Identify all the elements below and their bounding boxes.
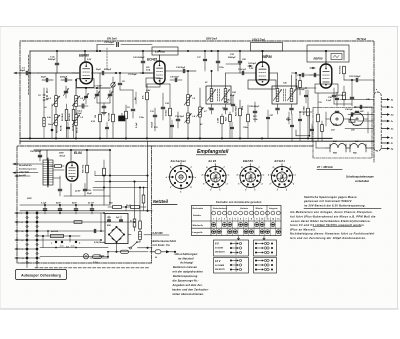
- svg-text:R3 10kΩ: R3 10kΩ: [340, 65, 342, 74]
- wire: suppression cap row: [20, 204, 110, 206]
- junction dots ground bus: [29, 137, 31, 139]
- svg-text:1: 1: [258, 167, 259, 169]
- IFT1 core: [217, 89, 219, 101]
- svg-text:C18 30µF: C18 30µF: [175, 116, 185, 118]
- wire: V1 anode to rail: [84, 51, 86, 62]
- svg-text:R5 1k: R5 1k: [77, 126, 79, 133]
- coil netz: [139, 232, 142, 240]
- wire lamp: [40, 247, 108, 249]
- svg-text:50nF: 50nF: [56, 203, 62, 205]
- shield box V3: [248, 80, 276, 89]
- switch netz: [131, 243, 137, 248]
- coil L5 osc: [187, 95, 190, 106]
- cap c13: [153, 114, 156, 116]
- svg-text:5000pF: 5000pF: [104, 69, 112, 71]
- capacitor C4a 5000pF: [55, 62, 58, 64]
- choke R82: [350, 144, 366, 149]
- connector cable sleeve (dashed pill): [374, 92, 381, 151]
- shield block (solid): [119, 116, 126, 121]
- arrow V3 in: [248, 65, 252, 67]
- cap row near bus d: [231, 126, 234, 128]
- svg-text:2,5V (Skala): 2,5V (Skala): [93, 242, 106, 244]
- svg-text:6,3V 636: 6,3V 636: [153, 232, 164, 235]
- resistor A9 630: [51, 234, 64, 237]
- svg-text:C23 1000pF: C23 1000pF: [349, 76, 361, 78]
- capacitor C12 500pF: [116, 43, 118, 47]
- wire v4 det: [317, 140, 319, 143]
- svg-text:gemessen mit Instrument 50kΩ/V: gemessen mit Instrument 50kΩ/V: [303, 199, 352, 203]
- wire trafo-tube: [53, 169, 64, 171]
- wire bf: [97, 87, 110, 89]
- svg-text:12 V: 12 V: [215, 259, 221, 263]
- resistor R3: [125, 111, 128, 119]
- wire af-psu h3: [93, 187, 148, 189]
- IFT1 coil L8: [210, 89, 213, 102]
- svg-text:Buchstabe: Buchstabe: [193, 207, 204, 210]
- resistor R22: [221, 116, 224, 124]
- svg-text:C28 400pF: C28 400pF: [249, 105, 260, 108]
- svg-text:(Plus an Masse!).: (Plus an Masse!).: [290, 227, 316, 231]
- svg-text:5000pF: 5000pF: [60, 77, 68, 79]
- svg-text:1: 1: [223, 167, 224, 169]
- svg-text:C7 50pF: C7 50pF: [94, 86, 103, 88]
- svg-text:mit der aufgedruckten: mit der aufgedruckten: [173, 270, 204, 274]
- svg-text:0,1µF: 0,1µF: [136, 122, 138, 128]
- resistor netz h2: [131, 206, 140, 209]
- svg-text:Schaltungsänderungen: Schaltungsänderungen: [346, 176, 374, 179]
- resistor R26: [247, 114, 250, 122]
- IFT2 core: [283, 89, 285, 101]
- pins 12V: [230, 260, 232, 262]
- svg-text:EBF80: EBF80: [314, 56, 323, 60]
- svg-text:0,4V: 0,4V: [146, 89, 151, 92]
- transformer core: [47, 158, 49, 187]
- svg-text:R4 610: R4 610: [56, 125, 59, 133]
- capacitor C19 coupling: [241, 71, 243, 74]
- cap c26: [231, 103, 234, 105]
- bridge nodes: [115, 226, 117, 228]
- choke end bars: [329, 144, 331, 152]
- svg-text:0,8V: 0,8V: [333, 124, 338, 126]
- svg-text:50nF: 50nF: [126, 205, 131, 207]
- trimmer cap front-end 1: [64, 90, 67, 92]
- svg-text:145V 5,7mA: 145V 5,7mA: [252, 39, 265, 42]
- page left edge: [0, 27, 1, 310]
- frame: receiver bottom dashed segment: [152, 145, 314, 147]
- wire seg: [116, 72, 152, 74]
- wire lower h y222: [37, 221, 135, 223]
- resistor R50: [86, 165, 89, 173]
- wire: B+ supply rail: [30, 50, 344, 52]
- svg-text:C32 50pF: C32 50pF: [336, 95, 346, 97]
- page bottom edge: [0, 308, 398, 310]
- relay coil La85: [351, 113, 364, 126]
- wire: V2 grid: [140, 72, 154, 74]
- cap row near bus f: [311, 128, 314, 130]
- wire v2 net: [147, 83, 170, 85]
- shield box V1: [77, 79, 95, 88]
- svg-text:lern und zur Zerstörung der 10: lern und zur Zerstörung der 100µF-Konden…: [290, 236, 366, 240]
- svg-text:EBF80: EBF80: [243, 159, 253, 163]
- choke R84: [330, 144, 346, 149]
- svg-text:Empfangsteil: Empfangsteil: [197, 149, 229, 155]
- cap c8: [118, 82, 121, 84]
- svg-text:Zerhacker: Zerhacker: [170, 159, 187, 163]
- capacitor C23 1000pF: [355, 78, 357, 81]
- svg-text:R1 8k: R1 8k: [61, 124, 63, 131]
- socket EBF80: [240, 167, 261, 188]
- coil L1a tunable: [55, 115, 58, 126]
- wire contact bank to bus: [37, 212, 60, 214]
- IFT1 trim arrows: [207, 90, 215, 101]
- wires into connector: [373, 80, 375, 92]
- node big front: [51, 129, 54, 132]
- cap osc pad: [176, 118, 179, 120]
- wire: [120, 89, 133, 91]
- wire af-psu h1: [95, 175, 148, 177]
- resistor R V4 anode: [343, 66, 346, 74]
- wire: L2 branch: [75, 80, 77, 96]
- resistor netz h1: [113, 206, 122, 209]
- svg-text:500µF: 500µF: [76, 113, 82, 115]
- svg-text:Nichtbefolgung dieses Hinweise: Nichtbefolgung dieses Hinweises führt zu…: [290, 232, 375, 236]
- svg-text:C16 50µF: C16 50µF: [176, 67, 186, 69]
- svg-text:Mittelwelle: Mittelwelle: [193, 224, 204, 227]
- IFT2 cap b: [290, 107, 293, 109]
- svg-text:0,1µF: 0,1µF: [326, 100, 332, 102]
- svg-text:R2 5kΩ: R2 5kΩ: [69, 113, 71, 121]
- wire mid: [35, 235, 80, 237]
- resistor R51: [103, 168, 106, 176]
- svg-text:1,9V: 1,9V: [87, 59, 92, 61]
- nodes on A9: [42, 235, 44, 237]
- wire netz out: [128, 234, 131, 236]
- cap osc top: [203, 58, 206, 60]
- wire riser2: [109, 150, 111, 205]
- cap c28: [253, 110, 256, 112]
- wire riser main: [147, 141, 149, 211]
- svg-text:R25 90kΩ: R25 90kΩ: [236, 106, 238, 116]
- box 12V right: [254, 258, 277, 274]
- svg-text:teilen übereinstimmen.: teilen übereinstimmen.: [173, 292, 205, 296]
- socket ECH81 inner detail: [277, 173, 283, 179]
- cap on y231 line: [93, 229, 95, 232]
- svg-text:50mA: 50mA: [60, 156, 66, 158]
- table lower arrows: [237, 237, 239, 240]
- wire EL94 anode: [70, 150, 72, 161]
- resistor R25: [239, 108, 242, 116]
- box 6V right: [254, 240, 277, 256]
- cap in circle b: [355, 110, 358, 112]
- cap in circle a: [335, 110, 338, 112]
- cap C30b: [305, 94, 308, 96]
- svg-text:Batterieanschluß: Batterieanschluß: [153, 239, 177, 243]
- wire: V4 grid in: [310, 74, 320, 76]
- tube V3 EBF80: [256, 62, 269, 85]
- resistor R1b: [65, 110, 68, 121]
- svg-text:50pF: 50pF: [96, 69, 102, 71]
- IFT1 cap b: [224, 107, 227, 109]
- svg-text:Kontakte von Geräteseite geseh: Kontakte von Geräteseite gesehen: [216, 201, 262, 204]
- svg-text:C10 2000pF: C10 2000pF: [133, 57, 145, 59]
- svg-text:Sämtliche Spannungen gegen Mas: Sämtliche Spannungen gegen Masse: [304, 195, 357, 199]
- svg-text:Zweitlautsprecher: Zweitlautsprecher: [18, 167, 37, 170]
- cap row near bus b: [106, 126, 109, 128]
- wire: V4 top loop: [325, 51, 327, 64]
- svg-text:DIN 41571: DIN 41571: [215, 251, 225, 254]
- table contact marks: [212, 223, 216, 227]
- cap row near bus c: [171, 124, 174, 126]
- trimmer front: [85, 95, 88, 97]
- shield box V2: [146, 78, 160, 87]
- coil L2 tunable: [75, 96, 78, 107]
- switch contact bank left: [15, 212, 20, 214]
- resistor R32: [317, 114, 320, 122]
- grid stopper: [55, 165, 62, 168]
- dots lower contacts: [26, 230, 28, 232]
- capacitor C4b2: [81, 104, 83, 108]
- wire IFT2 top: [277, 73, 279, 89]
- vert wire x296: [295, 73, 297, 90]
- wire af vert stubs: [94, 171, 96, 176]
- svg-text:C22 8µF: C22 8µF: [248, 63, 257, 65]
- fuse netz: [121, 250, 129, 253]
- wire lower h: [93, 189, 104, 191]
- trimmer cap bf2: [108, 93, 111, 95]
- title box Autosuper Ochsenburg: [16, 270, 67, 280]
- svg-text:A9 630: A9 630: [50, 231, 59, 233]
- terminal arrows speaker: [13, 163, 18, 165]
- terminal arrows right side: [382, 99, 388, 101]
- shield dashed line V1-V2: [106, 48, 108, 70]
- coil L4: [43, 118, 45, 127]
- wire loop V4 anode: [307, 45, 349, 62]
- pins 6V: [230, 243, 232, 245]
- capacitor C3: [64, 78, 66, 81]
- wire det: [334, 103, 352, 105]
- svg-text:vorbehalten: vorbehalten: [355, 180, 370, 183]
- wire 63 lead: [140, 232, 152, 234]
- svg-text:Mittelw.: Mittelw.: [256, 207, 264, 210]
- frame: receiver section dashed border: [20, 41, 374, 162]
- wire y64 seg: [226, 63, 240, 65]
- svg-text:R31 1MΩ: R31 1MΩ: [304, 106, 306, 115]
- cap on lead b: [350, 113, 352, 116]
- svg-text:last 4Ω: last 4Ω: [19, 174, 26, 177]
- shield box V4: [315, 84, 338, 93]
- svg-text:Vorkreis: Vorkreis: [240, 207, 249, 210]
- dots cap row: [44, 204, 46, 206]
- wire: ground bus upper: [20, 137, 332, 139]
- cap c9 to gnd: [131, 108, 134, 110]
- wire: V3 anode: [262, 51, 264, 62]
- svg-text:50nF: 50nF: [72, 203, 78, 205]
- resistor R2b: [72, 110, 75, 121]
- IFT1 cap a: [210, 107, 213, 109]
- tube V5 EL94: [66, 162, 78, 181]
- arrow v4: [310, 67, 315, 69]
- cap row near bus e: [291, 124, 294, 126]
- wire el94 cath: [70, 184, 72, 197]
- svg-text:hacker und den Zerhacker-: hacker und den Zerhacker-: [172, 287, 209, 291]
- capacitor C20: [238, 60, 241, 62]
- svg-text:Si 2,5: Si 2,5: [99, 256, 105, 258]
- resistor R7: [146, 92, 149, 100]
- terminal: antenna input: [14, 72, 20, 74]
- resistor R2: [112, 114, 115, 122]
- svg-text:0,9V: 0,9V: [91, 121, 96, 123]
- svg-text:12,5V: 12,5V: [75, 191, 81, 193]
- svg-text:im 30V-Bereich bei 6,3V Batter: im 30V-Bereich bei 6,3V Batteriespannung…: [304, 203, 366, 207]
- svg-text:50µF: 50µF: [87, 193, 92, 195]
- node L2 top: [75, 79, 77, 81]
- node v1o: [115, 72, 117, 74]
- capacitor C50 5000pF: [38, 154, 41, 156]
- svg-text:3mA: 3mA: [146, 70, 151, 72]
- cap row near bus a: [67, 126, 70, 128]
- svg-text:40µF: 40µF: [230, 94, 235, 97]
- resistor R31: [307, 108, 310, 116]
- svg-text:7,5V: 7,5V: [249, 68, 254, 70]
- cap c32: [332, 94, 335, 96]
- coil L3 tunable: [75, 115, 78, 126]
- svg-text:-essen deren Räder betreibende: -essen deren Räder betreibenden Elektrol…: [290, 219, 371, 223]
- svg-text:Dr: Dr: [130, 220, 133, 222]
- cap c37: [299, 118, 302, 120]
- svg-text:305V: 305V: [59, 152, 64, 154]
- cap osc 2: [161, 106, 164, 108]
- cap bf gnd: [102, 105, 105, 107]
- suppression caps: [43, 208, 46, 210]
- relay coil La83: [331, 113, 344, 126]
- wire choke out: [371, 147, 374, 149]
- IFT2 trim arrows: [273, 90, 281, 101]
- bridge diodes: [112, 229, 114, 231]
- svg-text:Autosuper Ochsenburg: Autosuper Ochsenburg: [21, 274, 61, 278]
- svg-text:0,1µF: 0,1µF: [41, 203, 47, 205]
- svg-text:Zf: Zf: [390, 143, 393, 145]
- IF transformer 1 box: [206, 86, 231, 104]
- cap c33: [350, 96, 353, 98]
- wire v3 grid: [226, 72, 257, 74]
- box 6V: [214, 240, 249, 256]
- svg-text:C11 50pF: C11 50pF: [128, 74, 138, 76]
- wire lower h y240: [37, 239, 101, 241]
- IFT2 coil Lb: [290, 89, 293, 102]
- page right edge: [397, 27, 399, 310]
- measure box V4: [331, 54, 342, 60]
- resistor on y222 line: [74, 221, 82, 224]
- box 12V: [214, 258, 249, 274]
- wire trafo top: [46, 150, 48, 160]
- svg-text:190V: 190V: [27, 198, 32, 200]
- small comp lead c: [349, 120, 355, 122]
- cap c15: [174, 78, 176, 81]
- wire osc: [187, 71, 189, 95]
- wire af in: [20, 175, 30, 177]
- power box: [105, 214, 128, 244]
- svg-text:Angaben auf dem Zer-: Angaben auf dem Zer-: [172, 283, 203, 287]
- fuse T0,8: [93, 255, 102, 259]
- svg-text:EL94: EL94: [74, 151, 82, 155]
- socket EBF80 inner detail: [245, 173, 251, 179]
- svg-text:Schalter: Schalter: [193, 214, 201, 217]
- cap C52: [83, 188, 86, 190]
- socket ECH81: [272, 167, 293, 188]
- capacitor C10 2000pF: [141, 60, 144, 62]
- IFT1 coil L9: [224, 89, 227, 102]
- socket Zerhacker center: [179, 175, 183, 179]
- svg-text:20 kΩ: 20 kΩ: [166, 110, 168, 116]
- table contact number circles: [212, 211, 216, 215]
- cap c27: [267, 116, 270, 118]
- tube V1 EBF80: [80, 62, 92, 84]
- svg-text:Zwischenkreis: Zwischenkreis: [212, 207, 228, 210]
- wire y88 seg: [296, 87, 316, 89]
- resistor R1 1M: [99, 114, 102, 122]
- svg-text:C36 5µF: C36 5µF: [345, 109, 353, 111]
- wire fe link: [76, 87, 110, 89]
- capacitor coupling V1 out: [101, 71, 103, 74]
- svg-text:Langwelle: Langwelle: [193, 232, 204, 234]
- svg-text:ZF = 468 kHz: ZF = 468 kHz: [316, 165, 333, 169]
- res r21: [229, 115, 232, 122]
- svg-text:Batteriespannung: Batteriespannung: [173, 274, 198, 278]
- wire af-psu h2: [95, 181, 148, 183]
- svg-text:C50 5000pF: C50 5000pF: [30, 151, 42, 153]
- svg-text:Netzteil: Netzteil: [153, 199, 169, 204]
- svg-text:6 V: 6 V: [215, 241, 219, 245]
- wire: V2 anode: [159, 55, 161, 61]
- socket Zerhacker: [170, 166, 193, 189]
- wire: L1 branch: [55, 73, 57, 96]
- svg-text:ECH81: ECH81: [275, 159, 286, 163]
- IF transformer 2 box: [272, 86, 297, 104]
- bridge rectifier diamond: [109, 227, 124, 242]
- resistor R8: [169, 108, 172, 116]
- wire IFT1 top: [211, 71, 213, 89]
- plug symbol: [150, 251, 155, 253]
- pins 6V right: [255, 243, 257, 245]
- wire y121 seg: [300, 111, 312, 113]
- svg-text:Si 6/30B: Si 6/30B: [215, 248, 223, 250]
- svg-text:C12 500pF: C12 500pF: [104, 42, 115, 44]
- cap C35: [335, 97, 338, 99]
- wire osc h: [196, 70, 205, 72]
- capacitor C16 50uF: [182, 69, 184, 72]
- wire: V1 grid left: [72, 72, 79, 74]
- capacitor C1 50pF: [25, 71, 27, 74]
- coil L6 osc: [187, 113, 190, 123]
- svg-text:Zm: Zm: [390, 115, 394, 117]
- switch S2: [60, 245, 64, 247]
- svg-text:205V 2mA: 205V 2mA: [205, 39, 217, 41]
- resistor netz v1: [133, 219, 136, 227]
- socket EL94: [205, 167, 226, 188]
- svg-text:5000pF: 5000pF: [228, 57, 236, 59]
- capacitor C21 5000pF: [216, 60, 219, 62]
- switch contact pair front-end: [46, 91, 48, 93]
- cap on lead a: [359, 105, 361, 108]
- wire netzteil top bus: [20, 210, 152, 212]
- svg-text:5000pF: 5000pF: [48, 59, 56, 61]
- wire lower h y258 ext: [90, 257, 108, 259]
- tube V2 ECH81: [154, 61, 165, 84]
- IFT2 coil La: [276, 89, 279, 102]
- box: interference filter (dash-dot): [313, 108, 372, 159]
- resistor R30: [321, 125, 324, 132]
- svg-text:die Spannungs-Nr.-: die Spannungs-Nr.-: [173, 279, 199, 283]
